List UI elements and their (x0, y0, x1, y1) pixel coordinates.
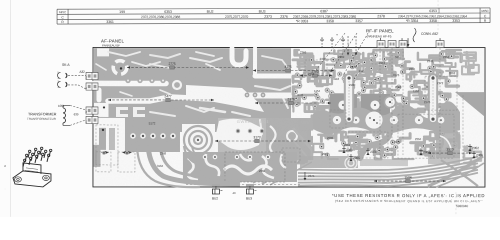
svg-text:6387: 6387 (320, 9, 328, 13)
svg-text:3361: 3361 (106, 20, 114, 24)
phono jack BU2 (215, 186, 217, 189)
svg-text:PANNEAU BF: PANNEAU BF (102, 44, 120, 48)
etched pocket (215, 118, 311, 160)
hole ring big (365, 111, 382, 128)
svg-text:A32: A32 (79, 70, 85, 74)
scan grain overlay (93, 47, 485, 187)
spiral trace coil (182, 124, 215, 156)
capacitor capsule C2 (429, 74, 437, 123)
diagonal trace bundle (148, 146, 240, 184)
pad row mid (243, 93, 330, 98)
resistor 2477 (108, 99, 214, 101)
svg-text:RF-IF PANEL: RF-IF PANEL (366, 28, 394, 33)
resistor 2780 (300, 75, 332, 77)
svg-text:2378: 2378 (377, 14, 385, 18)
trace bundle right strip (462, 52, 481, 168)
pocket pads (236, 129, 264, 133)
resistor 4175 (253, 70, 334, 72)
copper patch heatsink R (361, 94, 390, 117)
svg-text:199: 199 (119, 10, 125, 14)
connector pads transformer lower (86, 116, 98, 123)
page fold line (9, 0, 11, 217)
svg-text:(PANNEAU HF-FI): (PANNEAU HF-FI) (367, 34, 392, 38)
rings small (348, 160, 354, 166)
svg-text:2367,2369,2378,2374,2381,2373,: 2367,2369,2378,2374,2381,2373,2383,2380 (293, 15, 356, 19)
fold artifact right (437, 0, 439, 36)
svg-text:3357: 3357 (355, 19, 363, 23)
svg-text:TRANSFORMER: TRANSFORMER (28, 112, 57, 116)
svg-text:639: 639 (74, 112, 79, 116)
copper band mid (313, 101, 460, 134)
pad ring 390 (384, 96, 395, 107)
svg-text:5938040: 5938040 (456, 204, 468, 208)
capacitor 2371 (304, 172, 306, 179)
svg-text:MISC: MISC (59, 10, 67, 14)
hole ring 337 (333, 116, 341, 124)
copper block bottom-center (183, 152, 300, 185)
capacitor 2366b (473, 151, 475, 158)
svg-text:3353: 3353 (452, 19, 460, 23)
connector pads SK-A upper (86, 72, 98, 79)
AF panel board outline (93, 47, 485, 187)
copper pour left (94, 48, 311, 160)
svg-text:MISC: MISC (481, 9, 489, 13)
svg-text:2376: 2376 (280, 15, 288, 19)
phono jack BU3 (249, 186, 251, 189)
svg-text:2372,2376,2380,2376,2388: 2372,2376,2380,2376,2388 (141, 15, 180, 19)
bottom trace bundle (253, 150, 484, 187)
via pads zone A (293, 51, 453, 108)
copper patch NE corner (455, 92, 484, 116)
svg-text:*USE THESE RESISTORS R ONL: *USE THESE RESISTORS R ONLY IF A „AFES’-… (332, 193, 485, 198)
ground symbols and leaders (316, 33, 368, 74)
capacitor 2384 (420, 148, 422, 155)
svg-text:*R 3353: *R 3353 (296, 19, 308, 23)
hole ring 394 (390, 116, 398, 124)
RF connector tabs (377, 41, 444, 48)
pad P1 with via (102, 105, 106, 109)
arrow marks (101, 151, 105, 154)
loudspeaker connector SK-A (57, 63, 86, 89)
hole ring 356 (352, 116, 359, 123)
svg-text:·: · (4, 187, 5, 191)
resistor 1500 (428, 152, 472, 154)
svg-text:BU3: BU3 (246, 196, 252, 200)
svg-text:SK-A: SK-A (62, 63, 70, 67)
connector pads transformer upper (86, 107, 98, 114)
RF-IF panel callout (366, 28, 441, 47)
svg-text:6353: 6353 (164, 10, 172, 14)
white clearance channels (93, 48, 330, 134)
copper patch right mid (436, 132, 460, 158)
resistor 1504 (374, 180, 446, 182)
IC 5172 pad row (127, 121, 179, 148)
svg-text:TRANSFORMATEUR: TRANSFORMATEUR (27, 117, 57, 121)
svg-text:3358: 3358 (429, 19, 437, 23)
footnote (332, 193, 485, 208)
svg-text:CONN. A92: CONN. A92 (421, 32, 438, 36)
hole ring 419 (415, 116, 423, 124)
edge pads BU2 BU3 (212, 184, 220, 187)
svg-text:2373: 2373 (264, 15, 272, 19)
svg-text:6353: 6353 (429, 9, 437, 13)
capacitor 2365 (350, 154, 352, 161)
copper S-trace (360, 132, 390, 158)
pads bottom-left (102, 151, 106, 155)
capacitor 2352 (469, 144, 471, 151)
svg-text:2375,2377,2370: 2375,2377,2370 (225, 15, 248, 19)
trace bundle zone B (292, 116, 312, 163)
capacitor capsule C1 (345, 74, 353, 123)
svg-text:3358: 3358 (326, 19, 334, 23)
trace bundle zone A (293, 50, 461, 115)
svg-text:BU2: BU2 (212, 196, 218, 200)
svg-text:BU2: BU2 (207, 10, 214, 14)
svg-text:(SEZ CES RESISTANCES R SEU: (SEZ CES RESISTANCES R SEULEMENT QUAND I… (335, 198, 483, 203)
transformer winding 1061 (58, 104, 86, 126)
resistor 2775 (127, 66, 249, 68)
trace bundle zone C (313, 131, 459, 159)
resistor 3173 (215, 140, 311, 142)
parts table (57, 8, 490, 25)
svg-text:2364,2370,2365,2366,2362,2364,: 2364,2370,2365,2366,2362,2364,2360,2362,… (398, 14, 467, 18)
spiral bottom arcs (184, 146, 198, 164)
svg-text:*R 3354: *R 3354 (406, 19, 418, 23)
component outlines (96, 48, 463, 172)
svg-text:+: + (336, 33, 338, 37)
hole ring 441 (438, 117, 445, 124)
capacitor 2361 (343, 146, 345, 153)
copper patch heatsink L (330, 94, 357, 117)
mains transformer sketch (13, 147, 52, 187)
svg-text:1061: 1061 (58, 104, 65, 108)
svg-text:BU3: BU3 (259, 10, 266, 14)
component reference labels (157, 50, 456, 173)
resistor 2378 (255, 102, 331, 104)
connector pads SK-A lower (86, 83, 98, 90)
copper bar bottom-left (93, 145, 100, 167)
capacitor 2378b (367, 148, 369, 155)
